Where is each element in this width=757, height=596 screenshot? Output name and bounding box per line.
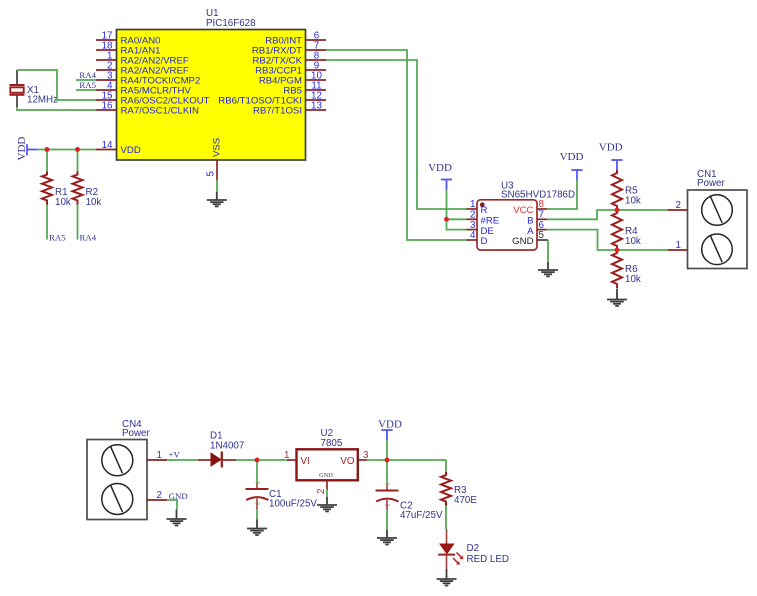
wire U3 VCC to VDD — [547, 180, 577, 209]
U1 pin 16 RA7/OSC1/CLKIN — [96, 101, 199, 117]
resistor R1 10k — [42, 172, 71, 209]
junction R4/R6/A — [615, 248, 620, 253]
ground (C2) — [377, 530, 397, 545]
svg-text:10k: 10k — [625, 196, 641, 207]
svg-text:PIC16F628: PIC16F628 — [206, 18, 256, 29]
svg-text:VDD: VDD — [428, 162, 452, 174]
resistor R3 470E — [441, 472, 477, 506]
U3 pin 8 VCC — [513, 199, 547, 216]
LED D2 RED LED — [438, 529, 509, 569]
junction D1/C1 — [255, 458, 260, 463]
svg-text:1: 1 — [284, 450, 289, 461]
svg-text:1: 1 — [386, 483, 392, 486]
svg-text:5: 5 — [539, 230, 545, 241]
svg-text:470E: 470E — [454, 495, 477, 506]
svg-text:3: 3 — [470, 220, 476, 231]
U1 pin 2 RA2/AN2/VREF — [96, 61, 189, 77]
junction at U3 pin 2 — [444, 217, 449, 222]
wire net RA4 at U1 pin 3 — [76, 79, 96, 81]
U1 pin 3 RA4/TOCKI/CMP2 — [96, 71, 200, 87]
ground (below R6) — [607, 289, 627, 306]
svg-text:RA5: RA5 — [79, 80, 96, 90]
wire rail to R3 — [445, 460, 447, 472]
svg-text:2: 2 — [157, 490, 162, 501]
wire net RA5 below R1 — [46, 205, 48, 240]
wire VDD to U3 pins 2,3 — [447, 190, 467, 230]
U3 pin 1 R — [467, 199, 488, 216]
junction at R1 top — [45, 147, 50, 152]
U3 pin 4 D — [467, 230, 488, 247]
ground (U1 VSS) — [207, 192, 227, 206]
U1 pin 14 VDD — [96, 140, 141, 156]
wire RB1 (U1 pin7) to U3 pin 4 D — [326, 50, 467, 240]
ground (C1) — [247, 520, 267, 536]
wire RB2 (U1 pin8) to U3 pin 1 R — [326, 60, 467, 209]
svg-text:6: 6 — [539, 220, 545, 231]
junction R5/R4/B — [615, 208, 620, 213]
svg-text:RB7/T1OSI: RB7/T1OSI — [253, 106, 302, 117]
IC U1 PIC16F628 microcontroller — [117, 8, 306, 160]
U1 pin 12 RB6/T1OSO/T1CKI — [218, 91, 326, 107]
svg-text:10k: 10k — [625, 274, 641, 285]
U1 pin 4 RA5/MCLR/THV — [96, 81, 191, 97]
ground (U3 GND) — [538, 262, 558, 276]
svg-text:1N4007: 1N4007 — [210, 441, 244, 452]
svg-text:GND: GND — [512, 236, 533, 247]
U1 pin 17 RA0/AN0 — [96, 31, 161, 47]
U3 pin 7 B — [527, 210, 547, 227]
svg-text:2: 2 — [676, 200, 681, 211]
svg-text:10k: 10k — [625, 236, 641, 247]
wire U3 pin 2 — [447, 218, 467, 220]
connector CN4 Power — [87, 419, 151, 520]
wire R3 to D2 — [445, 506, 447, 530]
U2 pin 3 VO — [358, 450, 369, 461]
power VDD (output rail) — [378, 419, 402, 441]
svg-text:47uF/25V: 47uF/25V — [400, 510, 443, 521]
wire net +V — [167, 459, 198, 461]
svg-text:A: A — [527, 226, 534, 237]
svg-text:1: 1 — [256, 481, 262, 484]
wire VO rail — [367, 459, 446, 461]
wire net GND at CN4 pin 2 — [167, 500, 177, 510]
wire VDD stem to rail — [386, 440, 388, 460]
svg-text:RA7/OSC1/CLKIN: RA7/OSC1/CLKIN — [121, 106, 199, 117]
svg-text:VDD: VDD — [599, 142, 623, 154]
svg-text:1: 1 — [676, 240, 681, 251]
svg-text:Power: Power — [697, 178, 726, 189]
svg-text:GND: GND — [169, 491, 188, 501]
svg-text:13: 13 — [311, 101, 322, 112]
U1 pin 11 RB5 — [283, 81, 326, 97]
U1 pin 6 RB0/INT — [265, 31, 326, 47]
U1 pin 7 RB1/RX/DT — [252, 41, 326, 57]
wire VSS to ground — [216, 180, 218, 192]
U2 pin 2 GND — [316, 480, 327, 494]
U1 pin 9 RB3/CCP1 — [255, 61, 326, 77]
svg-text:1: 1 — [157, 450, 162, 461]
svg-text:2: 2 — [316, 489, 327, 494]
U1 pin 15 RA6/OSC2/CLKOUT — [96, 91, 210, 107]
wire net RA4 below R2 — [77, 205, 79, 240]
svg-text:DE: DE — [481, 226, 494, 237]
svg-text:VSS: VSS — [212, 138, 223, 157]
svg-text:12MHz: 12MHz — [27, 94, 58, 105]
U3 pin 2 #RE — [467, 210, 500, 227]
wire U3 GND down — [547, 240, 549, 262]
CN4 pin 2 — [147, 490, 167, 501]
wire B: U3 pin7 to CN1 pin 2 — [547, 210, 668, 219]
power VDD (above U3 RE/DE) — [428, 162, 452, 190]
ground (CN4) — [167, 510, 187, 526]
junction at R2 top — [75, 147, 80, 152]
CN4 pin 1 — [147, 450, 167, 461]
svg-text:10k: 10k — [55, 197, 71, 208]
wire VDD to R2 — [77, 150, 79, 172]
capacitor C1 100uF/25V — [246, 460, 318, 520]
ground (U2) — [317, 497, 337, 511]
resistor R5 10k — [612, 170, 641, 210]
svg-text:VDD: VDD — [560, 151, 584, 163]
connector CN1 Power — [688, 169, 748, 269]
power VDD (left, rotated) — [16, 137, 37, 161]
crystal X1 12MHz — [10, 70, 59, 107]
power VDD (above U3 VCC) — [560, 151, 584, 180]
wire VDD to R1 — [46, 150, 48, 172]
wire net RA5 at U1 pin 4 — [76, 89, 96, 91]
svg-text:5: 5 — [206, 171, 217, 177]
resistor R2 10k — [73, 172, 102, 209]
U3 pin 3 DE — [467, 220, 494, 237]
svg-text:Power: Power — [122, 428, 151, 439]
svg-text:4: 4 — [470, 230, 476, 241]
svg-text:RED LED: RED LED — [467, 554, 509, 565]
U1 pin 10 RB4/PGM — [259, 71, 326, 87]
U3 pin 5 GND — [512, 230, 548, 247]
svg-text:14: 14 — [102, 140, 113, 151]
U2 pin 1 VI — [284, 450, 296, 461]
svg-text:VDD: VDD — [121, 145, 141, 156]
svg-text:RA4: RA4 — [80, 233, 97, 243]
svg-text:16: 16 — [102, 101, 113, 112]
svg-text:VO: VO — [340, 456, 355, 467]
svg-text:D: D — [481, 236, 488, 247]
U1 pin 18 RA1/AN1 — [96, 41, 161, 57]
wire VDD rail to U1 pin 14 — [37, 149, 96, 151]
svg-text:D2: D2 — [467, 543, 480, 554]
resistor R4 10k — [612, 210, 641, 250]
U1 pin 1 RA2/AN2/VREF — [96, 51, 189, 67]
svg-text:VDD: VDD — [378, 419, 402, 431]
svg-text:VI: VI — [301, 456, 310, 467]
svg-text:RA5: RA5 — [49, 233, 66, 243]
wire OSC2: X1 top to U1 pin 15 — [17, 70, 96, 100]
U1 pin 5 VSS — [206, 138, 223, 180]
svg-text:GND: GND — [319, 472, 333, 479]
junction VO/VDD/C2 — [385, 458, 390, 463]
U1 pin 8 RB2/TX/CK — [252, 51, 326, 67]
ground (D2) — [437, 569, 457, 586]
wire OSC1: X1 bottom to U1 pin 16 — [17, 107, 96, 110]
regulator U2 7805 body — [297, 428, 358, 480]
wire U2 GND down — [326, 490, 328, 498]
resistor R6 10k — [612, 250, 641, 288]
svg-text:7805: 7805 — [321, 438, 343, 449]
wire D1 to C1/U2 junction — [236, 459, 289, 461]
U1 pin 13 RB7/T1OSI — [253, 101, 326, 117]
U3 pin 6 A — [527, 220, 547, 237]
diode D1 1N4007 — [198, 431, 244, 468]
CN1 pin 2 — [668, 200, 688, 211]
CN1 pin 1 — [668, 240, 688, 251]
IC U3 SN65HVD1786D body — [477, 181, 575, 251]
svg-text:+V: +V — [169, 450, 181, 460]
svg-text:100uF/25V: 100uF/25V — [269, 499, 317, 510]
power VDD (above R5) — [599, 142, 623, 171]
svg-text:RA4: RA4 — [79, 70, 96, 80]
svg-text:10k: 10k — [86, 197, 102, 208]
wire A: U3 pin6 to CN1 pin 1 — [547, 230, 668, 250]
capacitor C2 47uF/25V — [376, 460, 443, 530]
